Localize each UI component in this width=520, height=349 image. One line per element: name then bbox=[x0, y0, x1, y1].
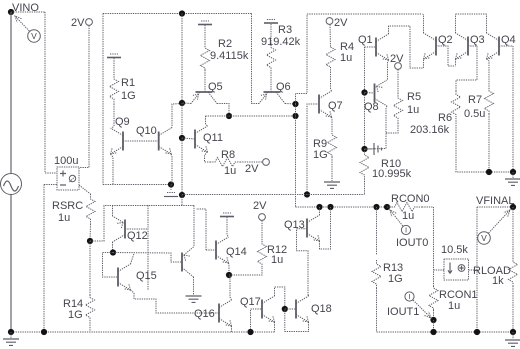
svg-text:Q3: Q3 bbox=[470, 34, 485, 46]
svg-text:1u: 1u bbox=[340, 52, 352, 64]
power bar symbol below node bbox=[164, 193, 178, 197]
wire R10 bottom to y194 wire bbox=[364, 181, 366, 195]
wire R2 to Q5 bbox=[204, 70, 206, 92]
svg-text:R5: R5 bbox=[407, 91, 421, 103]
wire ground stem bottom-right bbox=[512, 332, 514, 339]
svg-text:0.5u: 0.5u bbox=[464, 108, 485, 120]
transistor Q11 bbox=[195, 126, 208, 152]
wire R8 to 2V terminal bbox=[240, 161, 263, 163]
resistor R1 bbox=[110, 74, 119, 104]
ground below R9 bbox=[324, 182, 340, 188]
wire R9 to ground bbox=[331, 157, 333, 181]
wire node to R12 bottom bbox=[229, 267, 262, 275]
label R3 bbox=[278, 24, 292, 36]
label Q3 bbox=[470, 34, 485, 46]
wire RSRC to node bbox=[89, 224, 92, 241]
wire RCON1 to node bbox=[433, 310, 435, 320]
node rail/Q11 base bbox=[179, 135, 185, 141]
node RCON1 bottom bbox=[430, 317, 436, 323]
wire R13 to bottom rail bbox=[376, 288, 378, 332]
transistor Q13 bbox=[307, 215, 320, 241]
power bar above R3 bbox=[264, 20, 278, 24]
resistor RSRC bbox=[86, 194, 95, 224]
wire Q1 emitter down to Q8 bbox=[388, 60, 389, 80]
power bar above Q14 bbox=[220, 213, 234, 217]
wire Q7 base elbow down bbox=[307, 104, 319, 195]
node bottom rail/RCON1 bbox=[430, 329, 436, 335]
label R1 bbox=[121, 77, 135, 89]
value R8 1u bbox=[224, 165, 236, 177]
wire power bar to R2 bbox=[204, 25, 206, 46]
value RCON0 1u bbox=[402, 210, 414, 222]
node rail/mid horizontal wire bbox=[179, 192, 185, 198]
wire Q3 base link to R6 bbox=[456, 46, 477, 91]
wire Q7 emitter to R9 bbox=[331, 117, 334, 133]
svg-text:Q10: Q10 bbox=[136, 125, 157, 137]
label R13 bbox=[383, 262, 403, 274]
label RSRC bbox=[52, 200, 83, 212]
svg-text:203.16k: 203.16k bbox=[410, 124, 450, 136]
resistor R7 bbox=[485, 88, 494, 114]
node RSRC/R14 junction bbox=[87, 238, 93, 244]
label Q6 bbox=[276, 81, 291, 93]
wire Q11 emitter to R8 bbox=[205, 152, 211, 162]
wire Q12 collector riser bbox=[112, 206, 114, 217]
wire 2V to R12 bbox=[261, 221, 263, 242]
value R4 1u bbox=[340, 52, 352, 64]
wire power-bar stem bbox=[170, 185, 172, 191]
svg-text:R7: R7 bbox=[468, 94, 482, 106]
node right-rail/y172 bbox=[510, 169, 516, 175]
value R13 1G bbox=[388, 273, 403, 285]
wire Q17 base riser from bus bbox=[251, 309, 263, 332]
value R1 1G bbox=[121, 90, 136, 102]
resistor RLOAD bbox=[509, 258, 518, 286]
wire Q7 collector to R4 bbox=[331, 67, 332, 91]
wire left box edge down bbox=[102, 14, 104, 185]
svg-text:Q2: Q2 bbox=[438, 34, 453, 46]
label 2V (R5) bbox=[390, 53, 404, 65]
wire ground stem top-right bbox=[512, 172, 514, 178]
wire Q18 emitter bracket bbox=[285, 309, 309, 332]
transistor Q8 bbox=[375, 80, 388, 106]
node bottom rail/x477 bbox=[474, 329, 480, 335]
terminal 2V above R5 bbox=[395, 63, 402, 70]
node x295/y104 bbox=[292, 101, 298, 107]
resistor R6 bbox=[452, 91, 461, 118]
wire Q1 collector loop to Q2 emitter bbox=[389, 26, 424, 68]
value R14 1G bbox=[68, 309, 83, 321]
sine source V1 bbox=[1, 174, 22, 195]
wire bottom ground bus left bbox=[11, 331, 275, 333]
wire Q16 emitter to bus bbox=[231, 326, 233, 332]
resistor R2 bbox=[201, 46, 210, 70]
wire bracket to pnp emitter riser bbox=[193, 206, 195, 248]
svg-text:Q8: Q8 bbox=[364, 101, 379, 113]
label R5 bbox=[407, 91, 421, 103]
svg-text:Q1: Q1 bbox=[358, 34, 373, 46]
label Q11 bbox=[203, 132, 223, 144]
label 2V (top-left terminal) bbox=[71, 17, 85, 29]
value RCON1 1u bbox=[448, 300, 460, 312]
node bus/R13 bbox=[373, 204, 379, 210]
terminal 2V top-left bbox=[86, 19, 93, 26]
power bar sideways at R10 node bbox=[365, 143, 382, 155]
wire R6 bottom to y172 wire bbox=[456, 118, 513, 172]
node VFINAL bbox=[510, 204, 516, 210]
wire box edge to power bar node bbox=[103, 184, 171, 186]
wire node to pnp base bbox=[113, 253, 182, 263]
wire Q3 emitter down bbox=[455, 59, 457, 66]
wire R3 to Q6 bbox=[270, 70, 272, 92]
wire Q14 base riser bbox=[196, 209, 206, 250]
wire Q4 collector up to top rail bbox=[486, 14, 488, 33]
wire R14 to ground bus bbox=[89, 320, 91, 332]
wire box right tap bbox=[469, 269, 478, 271]
label R6 bbox=[438, 112, 452, 124]
label RCON0 bbox=[391, 193, 430, 205]
wire power bar to Q14 collector bbox=[227, 217, 229, 237]
wire Q13 base loop down to Q18 collector bbox=[297, 229, 309, 296]
label IOUT1 bbox=[387, 306, 419, 318]
wire R13 riser from bus bbox=[376, 207, 378, 255]
svg-text:V: V bbox=[481, 233, 487, 243]
node R7/y172 bbox=[486, 169, 492, 175]
transistor Q15 bbox=[118, 264, 131, 290]
value R5 1u bbox=[407, 104, 419, 116]
wire rail x182 top segment bbox=[181, 14, 183, 104]
wire RCON0 right elbow down bbox=[422, 207, 434, 286]
wire Q10 collector riser to rail bbox=[171, 104, 181, 129]
wire box left tap bbox=[434, 269, 445, 271]
wire R7 bottom to y172 wire bbox=[488, 114, 490, 172]
node Q14/Q16/R12 bbox=[226, 272, 232, 278]
svg-text:Q16: Q16 bbox=[194, 308, 215, 320]
wire RLOAD to bottom rail bbox=[512, 286, 514, 332]
svg-text:I: I bbox=[408, 292, 410, 301]
node Q12/Q15 junction bbox=[110, 249, 116, 255]
wire ground stem bottom-left bbox=[10, 332, 12, 338]
svg-text:Q7: Q7 bbox=[328, 100, 343, 112]
svg-text:RSRC: RSRC bbox=[52, 200, 83, 212]
svg-text:Q18: Q18 bbox=[311, 303, 332, 315]
wire Q5 right leg over and down bbox=[217, 104, 229, 117]
svg-text:Q4: Q4 bbox=[501, 34, 516, 46]
wire Q17 emitter to bus bbox=[274, 322, 276, 332]
current probe IOUT0 bbox=[390, 210, 411, 235]
resistor R14 bbox=[86, 295, 95, 320]
label R2 bbox=[218, 38, 232, 50]
node x295/y116 bbox=[292, 113, 298, 119]
resistor R9 bbox=[328, 133, 337, 157]
wire right rail upper bbox=[512, 46, 514, 172]
label RCON1 bbox=[439, 289, 478, 301]
transistor Q2 bbox=[424, 33, 437, 59]
svg-text:1u: 1u bbox=[407, 104, 419, 116]
transistor Q17 bbox=[262, 296, 275, 322]
label 100u bbox=[54, 155, 78, 167]
label VFINAL bbox=[476, 195, 515, 207]
terminal 2V right of R8 bbox=[263, 159, 270, 166]
transistor Q9 bbox=[111, 128, 124, 154]
unlabeled pnp transistor near Q16 bbox=[182, 247, 194, 277]
ground bottom-right bbox=[505, 340, 520, 346]
label Q4 bbox=[501, 34, 516, 46]
resistor R8 bbox=[210, 158, 240, 167]
svg-text:919.42k: 919.42k bbox=[261, 36, 301, 48]
wire VINO top to right rail bbox=[11, 11, 45, 13]
node R10 top bbox=[361, 146, 367, 152]
wire Q5 left leg to rail bbox=[182, 102, 191, 105]
node bottom bus at left rail bbox=[8, 329, 14, 335]
svg-text:10.995k: 10.995k bbox=[372, 168, 412, 180]
wire x148 vertical bbox=[147, 206, 149, 291]
wire 2V to R4 bbox=[329, 25, 332, 48]
label VINO bbox=[12, 2, 39, 14]
label Q18 bbox=[311, 303, 332, 315]
wire rail stub down to bracket bbox=[181, 195, 183, 206]
node x307/y194 bbox=[304, 191, 310, 197]
svg-text:R3: R3 bbox=[278, 24, 292, 36]
wire Q8 collector down to R10 node bbox=[365, 106, 388, 149]
wire Q13 emitter loop bbox=[320, 207, 331, 249]
transistor Q18 bbox=[296, 296, 309, 322]
wire Q9 emitter down to y184 wire bbox=[111, 154, 114, 185]
controlled source 10.5k box bbox=[444, 259, 469, 280]
label Q13 bbox=[284, 219, 305, 231]
wire mid horizontal y194 bbox=[182, 194, 365, 196]
ground bottom-left bbox=[3, 339, 19, 345]
label Q7 bbox=[328, 100, 343, 112]
resistor R12 bbox=[258, 241, 267, 267]
wire R5 bottom elbow to Q8 collector line bbox=[386, 123, 398, 133]
wire Q18 base stub bbox=[285, 308, 296, 310]
transistor Q14 bbox=[216, 237, 229, 263]
svg-text:Q15: Q15 bbox=[136, 270, 157, 282]
voltage probe VINO bbox=[15, 16, 40, 42]
resistor R10 bbox=[360, 149, 369, 181]
node bus/Q13 collector bbox=[316, 204, 322, 210]
wire right branch of VIN loop bbox=[45, 12, 57, 173]
current probe IOUT1 bbox=[405, 292, 431, 318]
node bus/RCON0 left bbox=[384, 204, 390, 210]
wire y116 horizontal bbox=[206, 115, 296, 117]
label 2V (R8) bbox=[245, 163, 259, 175]
node bottom bus at cap rail bbox=[41, 329, 47, 335]
svg-text:R2: R2 bbox=[218, 38, 232, 50]
svg-text:Q11: Q11 bbox=[203, 132, 223, 144]
value R9 1G bbox=[313, 149, 328, 161]
label Q14 bbox=[226, 246, 247, 258]
label IOUT0 bbox=[396, 237, 428, 249]
wire x364 rail lower bbox=[364, 93, 366, 150]
value RSRC 1u bbox=[58, 212, 70, 224]
wire Q11 base from rail bbox=[182, 138, 195, 139]
wire Q14 base from left bbox=[206, 249, 216, 251]
wire pnp collector to ground bbox=[193, 277, 195, 295]
wire Q8 base stub bbox=[365, 92, 375, 95]
value R7 0.5u bbox=[464, 108, 485, 120]
svg-text:R1: R1 bbox=[121, 77, 135, 89]
svg-text:2V: 2V bbox=[334, 17, 348, 29]
label Q15 bbox=[136, 270, 157, 282]
wire top rail fourth segment bbox=[456, 13, 487, 15]
value R3 919.42k bbox=[261, 36, 301, 48]
resistor R13 bbox=[372, 260, 381, 288]
value R6 203.16k bbox=[410, 124, 450, 136]
wire 2V to R5 bbox=[397, 70, 399, 94]
wire Q4 base to right rail bbox=[499, 45, 513, 47]
svg-text:2V: 2V bbox=[245, 163, 259, 175]
value R10 10.995k bbox=[372, 168, 412, 180]
node rail/Q5 left leg bbox=[179, 100, 185, 106]
wire rail x182 lower segment bbox=[181, 138, 183, 195]
wire Q2 collector up to top rail bbox=[423, 14, 425, 33]
transistor Q10 bbox=[159, 128, 172, 154]
label RLOAD bbox=[473, 265, 511, 277]
wire Q18 collector riser bbox=[307, 294, 309, 296]
svg-text:V: V bbox=[31, 31, 37, 41]
svg-text:1G: 1G bbox=[121, 90, 136, 102]
label R10 bbox=[381, 158, 401, 170]
power bar above R2 bbox=[198, 21, 212, 25]
transistor Q12 bbox=[113, 216, 126, 242]
label 2V (R4) bbox=[334, 17, 348, 29]
wire x364 rail upper bbox=[364, 47, 366, 93]
svg-text:2V: 2V bbox=[71, 17, 85, 29]
wire Q9 base to Q10 base bbox=[123, 140, 159, 142]
svg-text:IOUT1: IOUT1 bbox=[387, 306, 419, 318]
svg-text:100u: 100u bbox=[54, 155, 78, 167]
node Q18 base bbox=[282, 306, 288, 312]
wire Q13 collector riser bbox=[319, 207, 321, 215]
wire VFINAL down to RLOAD bbox=[512, 207, 514, 258]
wire Q14 emitter down to node bbox=[228, 263, 231, 275]
node bottom rail/RLOAD bbox=[510, 329, 516, 335]
svg-text:1u: 1u bbox=[402, 210, 414, 222]
wire top rail second segment bbox=[103, 13, 252, 15]
label R4 bbox=[340, 41, 354, 53]
svg-text:Q12: Q12 bbox=[127, 230, 148, 242]
label Q16 bbox=[194, 308, 215, 320]
label R7 bbox=[468, 94, 482, 106]
node y116/x229 bbox=[226, 113, 232, 119]
svg-text:10.5k: 10.5k bbox=[441, 244, 468, 256]
label R8 bbox=[221, 149, 235, 161]
wire Q10 emitter down to power-bar node bbox=[170, 154, 173, 185]
svg-text:Q17: Q17 bbox=[240, 296, 261, 308]
value R2 9.4115k bbox=[210, 50, 249, 62]
node VINO junction bbox=[8, 9, 14, 15]
svg-text:Q14: Q14 bbox=[226, 246, 247, 258]
node top rail junction bbox=[179, 10, 185, 16]
transistor Q3 bbox=[456, 33, 469, 59]
label Q12 bbox=[127, 230, 148, 242]
terminal 2V above R4 bbox=[326, 18, 333, 25]
wire Q4 emitter down to R7 bbox=[487, 59, 490, 88]
svg-text:1G: 1G bbox=[68, 309, 83, 321]
label R9 bbox=[313, 138, 327, 150]
value 10.5k bbox=[441, 244, 468, 256]
transistor Q1 bbox=[376, 34, 389, 60]
wire Q12 emitter down to node bbox=[112, 242, 114, 253]
node power-bar junction bbox=[168, 181, 174, 187]
wire bottom rail right bbox=[377, 331, 514, 333]
wire bus y207 bbox=[296, 206, 393, 208]
resistor RCON1 bbox=[429, 286, 438, 310]
wire left rail upper (VIN source top) bbox=[10, 12, 12, 174]
node Q17 base/bus bbox=[247, 329, 253, 335]
value R12 1u bbox=[271, 254, 283, 266]
wire x477 vertical bbox=[476, 207, 478, 332]
wire left rail lower (VIN source bottom) bbox=[10, 195, 12, 333]
wire R1 to Q9 collector bbox=[112, 104, 115, 129]
label Q10 bbox=[136, 125, 157, 137]
label Q2 bbox=[438, 34, 453, 46]
transistor Q5 bbox=[191, 92, 217, 104]
wire Q2 base link to Q3 emitter bbox=[436, 46, 456, 66]
node bus/Q13 emitter bbox=[327, 204, 333, 210]
label Q5 bbox=[208, 81, 223, 93]
wire branch to Q12 block bbox=[90, 206, 194, 242]
node Q8 base bbox=[361, 89, 367, 95]
wire Q15 emitter path to Q16 base bbox=[131, 290, 220, 313]
svg-text:1k: 1k bbox=[492, 275, 504, 287]
resistor R5 bbox=[394, 93, 403, 123]
svg-text:1G: 1G bbox=[388, 273, 403, 285]
wire node down to R14 bbox=[89, 241, 91, 295]
wire y116 left elbow to Q11 collector bbox=[206, 116, 208, 126]
wire power bar to R1 bbox=[113, 58, 115, 74]
wire Q15 collector diag extension bbox=[131, 254, 135, 265]
resistor RCON0 bbox=[387, 203, 422, 212]
wire Q3 collector up to top rail bbox=[455, 14, 457, 33]
wire node to Q15 base bbox=[103, 253, 119, 278]
wire Q16 collector riser bbox=[230, 275, 232, 300]
power bar above R1 bbox=[107, 54, 121, 58]
transistor Q16 bbox=[219, 300, 232, 326]
svg-text:1u: 1u bbox=[58, 212, 70, 224]
voltage probe VFINAL bbox=[478, 210, 510, 244]
wire Q12 base from right rail bbox=[125, 228, 148, 230]
wire Q17 collector to Q18 base bbox=[275, 287, 285, 309]
svg-text:1G: 1G bbox=[313, 149, 328, 161]
wire 2V rail down to cap top-right bbox=[79, 26, 89, 168]
svg-text:2V: 2V bbox=[253, 200, 267, 212]
transistor Q7 bbox=[319, 91, 332, 117]
svg-text:R6: R6 bbox=[438, 112, 452, 124]
ground below pnp bbox=[186, 296, 202, 302]
wire lower-left rail down to ground bus bbox=[43, 185, 45, 333]
label 2V (R12) bbox=[253, 200, 267, 212]
wire top rail drop to Q6 left leg bbox=[252, 14, 260, 104]
svg-text:9.4115k: 9.4115k bbox=[210, 50, 249, 62]
svg-text:VFINAL: VFINAL bbox=[476, 195, 515, 207]
wire 100u output diagonal to RSRC bbox=[79, 185, 91, 194]
polarized element 100u box bbox=[57, 167, 79, 190]
terminal 2V above R12 bbox=[259, 214, 266, 221]
label Q1 bbox=[358, 34, 373, 46]
wire top rail third segment bbox=[307, 13, 423, 15]
wire vfinal horizontal bbox=[477, 206, 513, 208]
svg-text:I: I bbox=[405, 226, 407, 235]
svg-text:Q9: Q9 bbox=[115, 116, 130, 128]
wire rail x182 mid segment bbox=[181, 103, 183, 138]
label R14 bbox=[63, 298, 83, 310]
value RLOAD 1k bbox=[492, 275, 504, 287]
label Q8 bbox=[364, 101, 379, 113]
label R12 bbox=[267, 244, 287, 256]
